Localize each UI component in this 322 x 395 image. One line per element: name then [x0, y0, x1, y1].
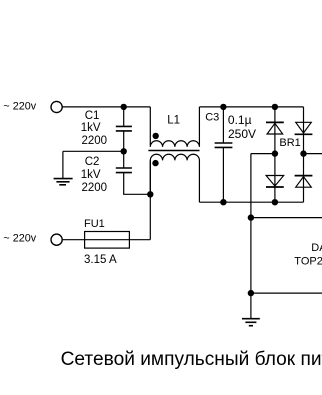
svg-text:TOP221Y: TOP221Y: [294, 255, 322, 267]
svg-text:L1: L1: [167, 114, 180, 126]
svg-text:~ 220v: ~ 220v: [3, 101, 36, 113]
svg-text:1kV: 1kV: [81, 169, 101, 181]
svg-text:~ 220v: ~ 220v: [3, 232, 36, 244]
svg-text:2200: 2200: [82, 135, 108, 147]
svg-text:1kV: 1kV: [81, 122, 101, 134]
svg-text:C1: C1: [85, 110, 100, 122]
svg-text:0.1µ: 0.1µ: [228, 113, 252, 127]
svg-text:Сетевой импульсный блок питани: Сетевой импульсный блок питания: [61, 349, 322, 370]
svg-text:C3: C3: [205, 112, 219, 124]
svg-text:250V: 250V: [228, 127, 256, 141]
svg-text:BR1: BR1: [279, 137, 300, 149]
svg-text:FU1: FU1: [84, 218, 105, 230]
svg-text:C2: C2: [85, 156, 100, 168]
svg-text:DA1: DA1: [311, 242, 322, 254]
svg-text:3.15 A: 3.15 A: [84, 254, 117, 266]
svg-text:2200: 2200: [82, 182, 108, 194]
